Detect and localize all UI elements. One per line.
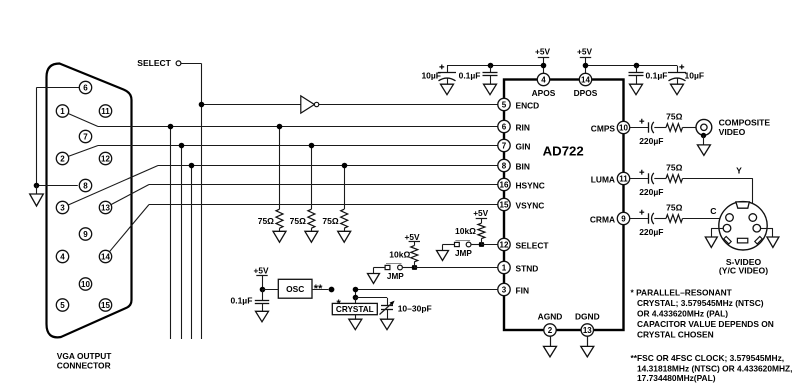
svg-text:**FSC OR 4FSC CLOCK; 3.579545M: **FSC OR 4FSC CLOCK; 3.579545MHz, <box>631 353 785 363</box>
svg-text:4: 4 <box>60 252 65 261</box>
svg-text:7: 7 <box>502 141 507 150</box>
svg-text:0.1µF: 0.1µF <box>230 295 252 305</box>
svg-text:5: 5 <box>502 100 507 109</box>
svg-text:13: 13 <box>101 203 110 212</box>
svg-text:OSC: OSC <box>286 284 304 294</box>
svg-text:9: 9 <box>83 230 88 239</box>
svg-text:220µF: 220µF <box>639 136 663 146</box>
svg-text:VIDEO: VIDEO <box>719 127 746 137</box>
svg-text:Y: Y <box>736 166 742 176</box>
svg-text:3: 3 <box>502 285 507 294</box>
svg-text:9: 9 <box>621 214 626 223</box>
svg-text:13: 13 <box>583 326 592 335</box>
svg-text:AGND: AGND <box>538 312 563 322</box>
svg-text:10–30pF: 10–30pF <box>398 304 432 314</box>
svg-text:CRYSTAL; 3.579545MHz (NTSC): CRYSTAL; 3.579545MHz (NTSC) <box>637 298 764 308</box>
svg-text:14.31818MHz (NTSC) OR 4.433620: 14.31818MHz (NTSC) OR 4.433620MHZ, <box>637 363 792 373</box>
svg-text:DPOS: DPOS <box>574 88 598 98</box>
svg-text:15: 15 <box>500 200 509 209</box>
svg-text:CRMA: CRMA <box>590 214 615 224</box>
svg-text:75Ω: 75Ω <box>322 216 338 226</box>
svg-text:5: 5 <box>60 301 65 310</box>
svg-text:RIN: RIN <box>516 122 530 132</box>
svg-text:HSYNC: HSYNC <box>516 180 545 190</box>
svg-text:+5V: +5V <box>405 232 420 242</box>
svg-text:75Ω: 75Ω <box>666 162 682 172</box>
svg-text:OR 4.433620MHz (PAL): OR 4.433620MHz (PAL) <box>637 309 728 319</box>
svg-text:+5V: +5V <box>535 47 550 57</box>
svg-text:220µF: 220µF <box>639 187 663 197</box>
svg-text:10: 10 <box>619 123 628 132</box>
svg-text:7: 7 <box>83 132 88 141</box>
svg-text:SELECT: SELECT <box>516 240 550 250</box>
svg-text:COMPOSITE: COMPOSITE <box>719 118 771 128</box>
svg-text:SELECT: SELECT <box>137 58 171 68</box>
svg-text:10kΩ: 10kΩ <box>455 226 476 236</box>
svg-text:+5V: +5V <box>254 266 269 276</box>
svg-text:14: 14 <box>581 75 590 84</box>
svg-text:VSYNC: VSYNC <box>516 200 545 210</box>
svg-text:0.1µF: 0.1µF <box>459 71 481 81</box>
svg-text:11: 11 <box>101 107 110 116</box>
svg-text:CRYSTAL: CRYSTAL <box>336 305 374 314</box>
svg-text:AD722: AD722 <box>543 144 584 159</box>
svg-text:* PARALLEL–RESONANT: * PARALLEL–RESONANT <box>631 288 733 298</box>
svg-text:14: 14 <box>101 252 110 261</box>
svg-text:JMP: JMP <box>387 272 404 281</box>
svg-text:4: 4 <box>541 75 546 84</box>
svg-text:0.1µF: 0.1µF <box>646 71 668 81</box>
svg-text:220µF: 220µF <box>639 227 663 237</box>
svg-text:75Ω: 75Ω <box>258 216 274 226</box>
svg-text:10µF: 10µF <box>421 71 441 81</box>
svg-text:11: 11 <box>619 174 628 183</box>
svg-text:STND: STND <box>516 263 539 273</box>
svg-text:ENCD: ENCD <box>516 100 540 110</box>
svg-text:C: C <box>710 206 716 216</box>
svg-text:10µF: 10µF <box>685 71 705 81</box>
svg-text:12: 12 <box>500 240 509 249</box>
svg-text:APOS: APOS <box>532 88 556 98</box>
svg-text:17.734480MHz(PAL): 17.734480MHz(PAL) <box>637 373 716 383</box>
svg-text:JMP: JMP <box>455 249 472 258</box>
svg-text:+5V: +5V <box>577 47 592 57</box>
svg-text:*: * <box>337 298 342 310</box>
svg-text:16: 16 <box>500 180 509 189</box>
svg-text:**: ** <box>314 283 323 295</box>
svg-text:CRYSTAL CHOSEN: CRYSTAL CHOSEN <box>637 329 714 339</box>
svg-text:BIN: BIN <box>516 161 530 171</box>
svg-text:12: 12 <box>101 154 110 163</box>
svg-text:LUMA: LUMA <box>591 174 615 184</box>
svg-text:+5V: +5V <box>473 208 488 218</box>
svg-text:2: 2 <box>60 154 65 163</box>
svg-text:75Ω: 75Ω <box>666 202 682 212</box>
svg-text:75Ω: 75Ω <box>290 216 306 226</box>
svg-text:1: 1 <box>502 263 507 272</box>
svg-text:CONNECTOR: CONNECTOR <box>57 361 111 371</box>
svg-text:DGND: DGND <box>575 312 600 322</box>
svg-text:8: 8 <box>83 181 88 190</box>
svg-text:10: 10 <box>81 280 90 289</box>
svg-text:VGA OUTPUT: VGA OUTPUT <box>57 351 112 361</box>
svg-text:15: 15 <box>101 301 110 310</box>
svg-text:FIN: FIN <box>516 285 530 295</box>
svg-text:CMPS: CMPS <box>591 123 616 133</box>
svg-text:8: 8 <box>502 161 507 170</box>
svg-text:10kΩ: 10kΩ <box>389 250 410 260</box>
svg-text:6: 6 <box>502 122 507 131</box>
svg-text:CAPACITOR VALUE DEPENDS ON: CAPACITOR VALUE DEPENDS ON <box>637 319 774 329</box>
svg-text:3: 3 <box>60 203 65 212</box>
svg-text:(Y/C VIDEO): (Y/C VIDEO) <box>719 266 768 276</box>
svg-text:GIN: GIN <box>516 141 531 151</box>
svg-text:1: 1 <box>60 107 65 116</box>
svg-text:2: 2 <box>548 326 553 335</box>
svg-text:6: 6 <box>83 83 88 92</box>
svg-text:75Ω: 75Ω <box>666 111 682 121</box>
